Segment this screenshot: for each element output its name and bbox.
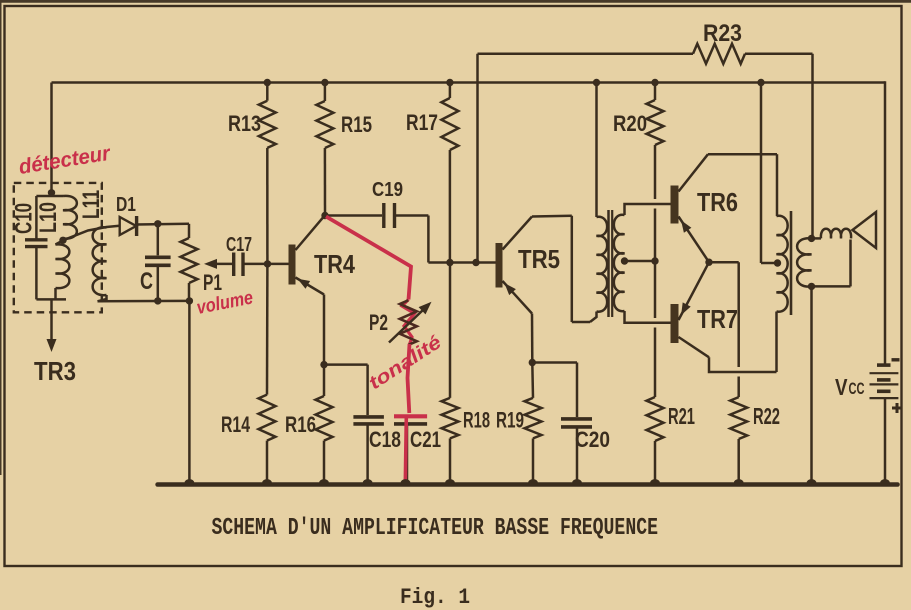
wire P1 ground leg	[188, 301, 191, 485]
inductor T1 primary	[590, 217, 607, 322]
battery VCC	[870, 365, 899, 484]
capacitor C17	[234, 253, 268, 277]
wire TR5 collector	[532, 216, 590, 322]
node rail T2 tap	[757, 79, 764, 86]
wire rail left drop to detector	[50, 83, 53, 194]
node T2 center tap	[774, 259, 781, 266]
label tonalite (red script)	[365, 332, 446, 395]
potentiometer P1	[181, 224, 198, 301]
node tank top	[48, 189, 55, 196]
resistor R17	[441, 83, 458, 151]
svg-text:R16: R16	[285, 412, 316, 437]
label battery plus	[892, 403, 902, 413]
label P1	[203, 270, 222, 295]
transistor TR5	[496, 217, 533, 314]
red tone wire to ground	[405, 418, 406, 484]
wire speaker ground leg	[810, 286, 813, 484]
wire TR7 collector	[709, 357, 777, 372]
label R23	[703, 20, 742, 47]
svg-text:R14: R14	[221, 412, 251, 437]
capacitor C18	[353, 365, 384, 485]
label C17	[226, 234, 252, 256]
wire R14 ground leg	[266, 441, 269, 485]
resistor R15	[316, 83, 333, 149]
svg-text:R23: R23	[703, 20, 742, 47]
svg-text:L11: L11	[78, 190, 105, 219]
inductor T2 secondary	[797, 238, 811, 286]
node rail T1	[593, 79, 600, 86]
label R14	[221, 412, 251, 437]
inductor T2 primary	[777, 216, 788, 372]
wire R23 top right	[745, 53, 813, 56]
label C	[140, 268, 153, 295]
node T1 center tap	[621, 257, 628, 264]
wire C19 to TR5 base	[396, 216, 496, 263]
red tone wire lower	[408, 344, 410, 413]
resistor R14	[259, 395, 276, 441]
wire speaker top	[812, 237, 822, 240]
node T2 sec bottom	[808, 283, 815, 290]
svg-text:R17: R17	[406, 110, 438, 135]
svg-text:R19: R19	[496, 408, 524, 433]
node TR5 emitter	[529, 359, 536, 366]
node TR4 collector	[321, 212, 328, 219]
red tone wire upper	[326, 217, 411, 300]
wire tap link	[761, 262, 778, 265]
svg-text:R13: R13	[228, 111, 261, 136]
capacitor C19	[384, 203, 395, 228]
ground bus	[158, 482, 898, 487]
node L10 tap	[59, 237, 66, 244]
inductor L11	[93, 227, 107, 295]
label R17	[406, 110, 438, 135]
svg-text:C21: C21	[410, 427, 441, 452]
label C20	[575, 427, 610, 452]
label R18	[463, 408, 490, 433]
svg-text:L10: L10	[35, 202, 62, 233]
wire center tap to R20	[625, 260, 656, 263]
transistor TR7	[671, 262, 710, 357]
node TR4 base	[264, 260, 271, 267]
transistor TR6	[671, 154, 710, 262]
label R13	[228, 111, 261, 136]
svg-text:C19: C19	[372, 179, 403, 201]
label R20	[613, 111, 647, 136]
svg-text:P1: P1	[203, 270, 222, 295]
wire emitter to C20	[532, 361, 577, 364]
wire emitters to R22	[709, 262, 739, 367]
label TR4	[314, 249, 355, 279]
svg-text:C: C	[140, 268, 153, 295]
inductor L10 lower	[56, 240, 70, 288]
wire rail to T1 primary	[595, 83, 598, 218]
node C bottom	[154, 297, 161, 304]
wire rail right drop to battery	[884, 81, 887, 365]
label C19	[372, 179, 403, 201]
wire tank top bar	[36, 190, 63, 196]
label D1	[116, 194, 136, 216]
wire R23 right leg	[811, 54, 814, 239]
svg-text:V: V	[835, 374, 848, 400]
label C21	[410, 427, 441, 452]
label L11	[78, 190, 105, 219]
wire TR5 emitter drop	[531, 314, 534, 363]
arrow P2 wiper	[389, 302, 432, 343]
wire R15 to collector node	[324, 148, 327, 216]
svg-text:R22: R22	[753, 403, 780, 429]
wire D1 to C node	[137, 223, 189, 226]
label TR5	[518, 244, 560, 274]
label P2	[369, 310, 388, 335]
svg-text:C18: C18	[369, 427, 401, 452]
svg-text:C10: C10	[11, 203, 38, 234]
wire T1 sec top to TR6 base	[625, 204, 671, 215]
label R22	[753, 403, 780, 429]
ground bus junctions	[185, 479, 890, 486]
svg-text:TR7: TR7	[697, 304, 738, 334]
wire detector bottom rail	[98, 300, 190, 303]
node rail R15	[321, 79, 328, 86]
speaker horn	[853, 212, 877, 248]
wire TR4 emitter drop	[323, 295, 326, 365]
node P1 bottom	[186, 297, 193, 304]
resistor R18	[442, 263, 459, 485]
potentiometer P2	[400, 300, 417, 345]
wire R13 to base node	[266, 148, 269, 264]
arrow TR3 input	[47, 339, 57, 352]
label TR7	[697, 304, 738, 334]
svg-text:C17: C17	[226, 234, 252, 256]
svg-text:SCHEMA D'UN AMPLIFICATEUR BASS: SCHEMA D'UN AMPLIFICATEUR BASSE FREQUENC…	[212, 515, 659, 542]
core T1	[609, 210, 613, 317]
resistor R22	[730, 377, 747, 485]
resistor R19	[525, 363, 542, 485]
transistor TR4	[289, 216, 325, 294]
svg-text:TR6: TR6	[697, 187, 738, 217]
svg-text:R20: R20	[613, 111, 647, 136]
scan edge top	[0, 0, 911, 3]
arrow P1 wiper	[204, 259, 232, 269]
label VCC	[835, 374, 865, 400]
wire emitter to C18	[324, 363, 368, 366]
label TR6	[697, 187, 738, 217]
red tone wire through P2	[402, 300, 415, 345]
core T2	[790, 211, 793, 315]
resistor R16	[316, 365, 333, 441]
wire R14 top leg	[266, 264, 269, 395]
node R20 bottom	[651, 257, 658, 264]
wire R16 ground leg	[323, 441, 326, 485]
resistor R13	[259, 83, 276, 148]
label L10	[35, 202, 62, 233]
inductor L10 upper	[63, 196, 77, 239]
node T2 sec top	[808, 235, 815, 242]
resistor R23	[693, 44, 745, 64]
node rail R20	[651, 79, 658, 86]
label R15	[341, 112, 372, 137]
svg-text:TR5: TR5	[518, 244, 560, 274]
wire R17 to base line	[449, 150, 452, 263]
label C10	[11, 203, 38, 234]
resistor R20	[647, 83, 664, 262]
svg-text:C20: C20	[575, 427, 610, 452]
svg-text:TR3: TR3	[34, 356, 76, 386]
node TR6 TR7 emitters	[705, 259, 712, 266]
wire L11 bottom hook	[98, 295, 107, 301]
wire L10 tap to D1	[63, 226, 120, 241]
wire R23 left leg	[476, 54, 479, 263]
capacitor C	[145, 224, 171, 301]
scan edge left	[0, 0, 2, 475]
diode D1	[120, 216, 137, 236]
node R23 base junction	[472, 259, 479, 266]
capacitor C21	[394, 416, 427, 484]
capacitor C10	[25, 196, 48, 299]
dashed detector box	[14, 183, 102, 312]
svg-text:D1: D1	[116, 194, 136, 216]
label detecteur (red script)	[17, 142, 113, 179]
title caption	[212, 515, 659, 542]
figure caption	[400, 585, 470, 610]
label volume (red script)	[195, 287, 255, 319]
label TR3	[34, 356, 76, 386]
svg-text:Fig. 1: Fig. 1	[400, 585, 470, 610]
node rail R17	[446, 79, 453, 86]
wire T1 sec bottom to TR7 base	[625, 311, 671, 323]
svg-text:P2: P2	[369, 310, 388, 335]
node R17 base junction	[446, 259, 453, 266]
wire tank bottom bar	[36, 288, 66, 299]
node TR4 emitter	[320, 361, 327, 368]
inductor T1 secondary	[614, 215, 625, 311]
node C top	[154, 220, 161, 227]
wire TR3 input	[50, 299, 53, 341]
svg-text:R15: R15	[341, 112, 372, 137]
wire speaker bottom	[812, 240, 851, 287]
wire rail to T2 center tap	[760, 83, 763, 264]
wire R23 top left	[478, 53, 694, 56]
ground bus junction red C21	[401, 479, 411, 486]
capacitor C20	[561, 363, 592, 485]
label R16	[285, 412, 316, 437]
svg-text:CC: CC	[849, 379, 865, 398]
node rail R13	[264, 79, 271, 86]
svg-text:R18: R18	[463, 408, 490, 433]
wire collector to C19	[325, 214, 382, 217]
wire top supply rail	[52, 81, 886, 84]
svg-text:TR4: TR4	[314, 249, 355, 279]
speaker voice coil	[821, 229, 851, 239]
label R21	[668, 403, 695, 429]
resistor R21	[647, 261, 664, 485]
svg-text:R21: R21	[668, 403, 695, 429]
label R19	[496, 408, 524, 433]
wire TR6 collector	[708, 154, 777, 216]
label C18	[369, 427, 401, 452]
wire TR4 base	[268, 263, 289, 266]
label battery minus	[892, 358, 900, 361]
